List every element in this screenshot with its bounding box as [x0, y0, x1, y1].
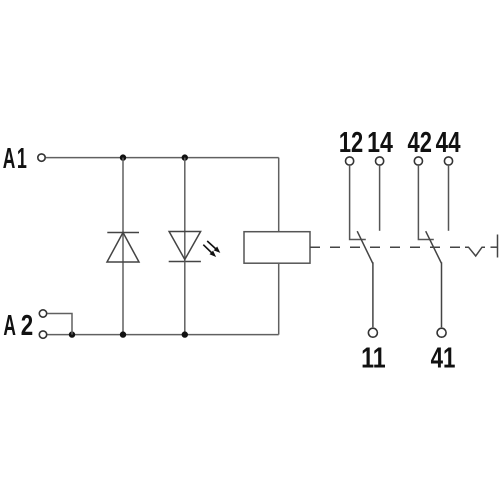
wire contact 42 with NC stop [418, 166, 433, 240]
terminal A2 lower [39, 331, 46, 338]
wire LED branch lower [184, 262, 186, 335]
node junction bottom diode [120, 331, 126, 337]
svg-text:A: A [3, 310, 16, 343]
node junction top LED [182, 154, 188, 160]
terminal 12 [346, 157, 354, 165]
svg-text:44: 44 [436, 127, 461, 158]
wire contact 12 with NC stop [350, 166, 366, 240]
wire test button to bar [491, 246, 498, 248]
svg-text:11: 11 [361, 341, 386, 374]
LED emission arrow 1 [207, 241, 220, 253]
terminal 44 [444, 157, 452, 165]
LED V2 [169, 232, 201, 262]
LED emission arrow 2 [203, 245, 216, 257]
terminal A1 [38, 154, 45, 161]
wire coil to bottom rail [278, 263, 280, 334]
wire A1 top rail [46, 157, 279, 159]
wire bottom rail [47, 334, 278, 336]
label A1 [3, 143, 27, 176]
mechanical link dashed line [310, 246, 460, 248]
svg-text:42: 42 [408, 127, 432, 159]
terminal A2 upper [39, 310, 46, 317]
svg-text:12: 12 [339, 127, 363, 159]
terminal 14 [376, 157, 384, 165]
svg-text:2: 2 [21, 310, 33, 341]
terminal 41 [437, 328, 446, 337]
test button symbol [465, 247, 485, 256]
svg-text:41: 41 [431, 343, 456, 374]
wire diode branch upper [122, 158, 124, 335]
wire LED branch upper [184, 158, 186, 262]
svg-text:1: 1 [17, 143, 27, 175]
node junction bottom LED [182, 331, 188, 337]
contact lever 11 [357, 231, 373, 327]
wire contact 44 NO stop [448, 166, 450, 231]
node junction A2 [69, 331, 75, 337]
diode V1 [107, 233, 139, 263]
wire A2 upper jog [47, 314, 72, 335]
relay coil K1 [244, 232, 310, 264]
terminal 11 [368, 328, 377, 337]
contact lever 41 [426, 231, 442, 327]
label A2 [3, 310, 33, 343]
wire top rail to coil [278, 158, 280, 232]
node junction top diode [120, 154, 126, 160]
terminal 42 [414, 157, 422, 165]
svg-text:14: 14 [367, 125, 393, 158]
wire contact 14 NO stop [379, 166, 381, 231]
right terminal bar [497, 235, 499, 258]
svg-text:A: A [3, 143, 16, 176]
